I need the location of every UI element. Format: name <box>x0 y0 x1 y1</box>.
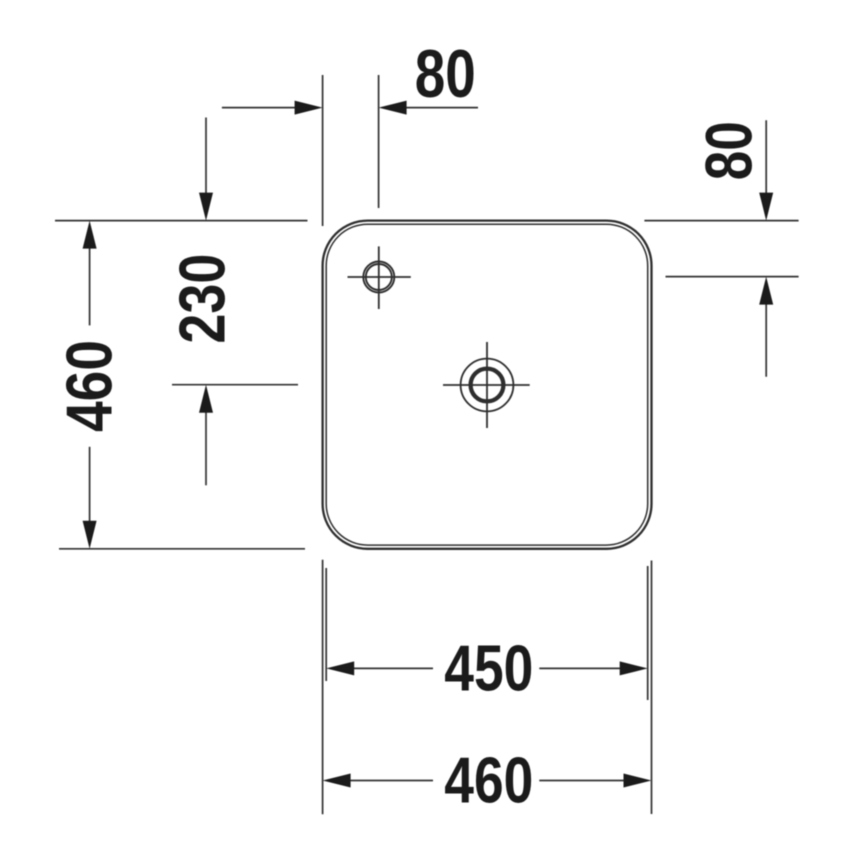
basin inner rim <box>326 224 648 545</box>
faucet hole outer circle <box>363 262 394 293</box>
dimension line 460 bottom right segment <box>539 780 625 782</box>
drain hole centerline vertical <box>486 342 488 428</box>
arrowhead 230 pointing up at drain line <box>199 385 213 413</box>
arrowhead 450 pointing right <box>620 661 648 675</box>
dimension line 80 top left segment <box>222 107 296 109</box>
dimension line 460 left lower segment <box>89 447 91 523</box>
extension line bottom right inner (dim 450) <box>647 566 649 700</box>
svg-text:80: 80 <box>415 36 476 112</box>
extension line bottom left outer (dim 460 bottom) <box>322 560 324 815</box>
arrowhead 450 pointing left <box>326 661 354 675</box>
extension line bottom left inner (dim 450) <box>325 568 327 681</box>
faucet hole centerline vertical <box>378 246 380 309</box>
arrowhead 460 left pointing down <box>83 521 97 549</box>
dimension line 230 lower segment <box>205 410 207 485</box>
dimension line 450 right segment <box>539 667 622 669</box>
arrowhead 460 bottom pointing left <box>323 774 351 788</box>
svg-text:460: 460 <box>444 743 533 816</box>
dimension line 80 right lower segment <box>765 302 767 377</box>
extension line basin left edge (top dim 80) <box>322 75 324 226</box>
svg-text:450: 450 <box>444 632 533 705</box>
drain hole outer circle <box>461 359 514 412</box>
extension line basin top edge left (left dim 460 / 230) <box>55 220 308 222</box>
extension line drain horizontal (dim 230) <box>172 384 298 386</box>
dimension line 450 left segment <box>352 667 433 669</box>
dimension line 80 right upper segment <box>765 120 767 195</box>
faucet hole centerline horizontal <box>348 276 411 278</box>
arrowhead 460 bottom pointing right <box>624 774 652 788</box>
svg-text:80: 80 <box>692 121 766 180</box>
arrowhead 80 top pointing right <box>295 101 323 115</box>
extension line bottom right outer (dim 460 bottom) <box>651 561 653 815</box>
drain hole centerline horizontal <box>443 384 530 386</box>
svg-text:230: 230 <box>166 254 239 344</box>
arrowhead 80 right pointing up <box>759 277 773 305</box>
dimension line 460 left upper segment <box>89 246 91 325</box>
drain hole inner circle <box>471 369 504 402</box>
extension line faucet vertical (top dim 80) <box>378 75 380 208</box>
extension line basin bottom edge left (left dim 460) <box>59 548 305 550</box>
arrowhead 80 right pointing down <box>759 193 773 221</box>
extension line faucet horizontal (right dim 80) <box>666 276 799 278</box>
dimension line 230 upper segment <box>205 118 207 196</box>
extension line basin top edge right (right dim 80) <box>644 220 798 222</box>
basin outer rim <box>323 221 652 549</box>
arrowhead 80 top pointing left <box>379 101 407 115</box>
dimension line 460 bottom left segment <box>349 780 433 782</box>
svg-text:460: 460 <box>53 340 126 432</box>
arrowhead 230 pointing down at top edge <box>199 193 213 221</box>
arrowhead 460 left pointing up <box>83 221 97 249</box>
faucet hole inner circle <box>366 264 392 290</box>
dimension line 80 top right segment <box>404 107 478 109</box>
